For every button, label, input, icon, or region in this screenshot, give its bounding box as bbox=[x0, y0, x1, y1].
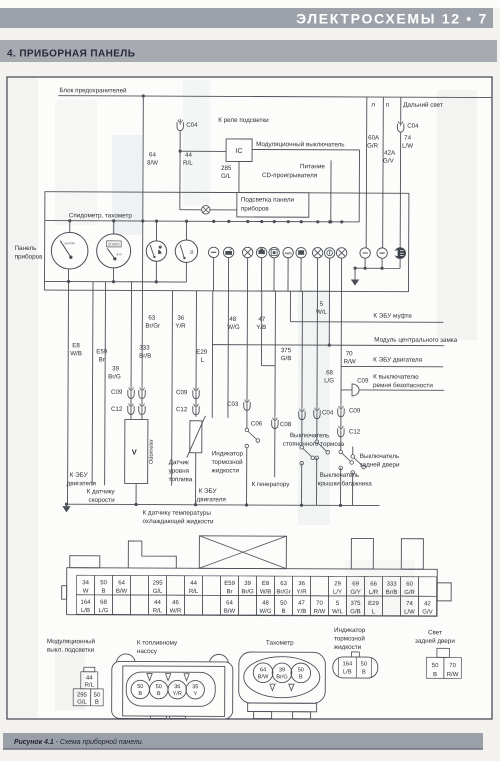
svg-text:44: 44 bbox=[190, 581, 197, 587]
indicator lamp L11 bbox=[360, 248, 370, 258]
svg-text:66: 66 bbox=[370, 581, 377, 587]
svg-text:29: 29 bbox=[334, 581, 341, 587]
indicator lamp L6 bbox=[283, 247, 293, 257]
wire 375 G/B generator branch bbox=[274, 291, 277, 416]
svg-text:R/W: R/W bbox=[447, 672, 459, 678]
svg-text:48: 48 bbox=[229, 316, 236, 323]
svg-text:C09: C09 bbox=[349, 407, 361, 414]
svg-text:44: 44 bbox=[154, 600, 161, 606]
svg-text:К датчику: К датчику bbox=[87, 488, 116, 495]
gauge ground bus bbox=[45, 280, 187, 283]
svg-text:Y/R: Y/R bbox=[173, 691, 182, 697]
connector C12 fuel bbox=[193, 406, 199, 415]
svg-text:G/V: G/V bbox=[422, 610, 432, 616]
pin 375 G/B bbox=[346, 596, 364, 616]
svg-text:164: 164 bbox=[80, 600, 91, 606]
svg-text:C03: C03 bbox=[227, 401, 239, 408]
wire to illumination lamp bbox=[180, 209, 202, 211]
wire lamp stub bbox=[340, 258, 342, 291]
brake fluid connector bbox=[351, 652, 359, 657]
svg-text:50: 50 bbox=[432, 663, 439, 669]
svg-text:333: 333 bbox=[139, 345, 150, 352]
svg-text:L/W: L/W bbox=[402, 143, 413, 150]
svg-text:G/V: G/V bbox=[383, 158, 395, 165]
svg-text:48: 48 bbox=[262, 601, 269, 607]
svg-text:К выключателю: К выключателю bbox=[373, 374, 419, 381]
svg-text:36: 36 bbox=[174, 684, 180, 690]
wire parking brake C08 bbox=[301, 291, 304, 407]
svg-text:L: L bbox=[201, 357, 205, 364]
svg-text:приборов: приборов bbox=[241, 204, 270, 212]
connector C04 lower bbox=[314, 410, 320, 419]
tachometer pin 50 B bbox=[291, 663, 311, 683]
svg-text:74: 74 bbox=[406, 601, 413, 607]
svg-text:К топливному: К топливному bbox=[137, 640, 178, 647]
indicator lamp L12 bbox=[377, 248, 387, 258]
svg-text:50: 50 bbox=[298, 667, 304, 673]
fuel pump pin 50 B bbox=[131, 680, 149, 698]
svg-text:Модуляционный выключатель: Модуляционный выключатель bbox=[256, 140, 345, 148]
connector C08 bbox=[299, 411, 305, 420]
wire stub gauge4 bbox=[185, 221, 187, 240]
svg-text:46: 46 bbox=[172, 600, 179, 606]
svg-text:70: 70 bbox=[316, 601, 323, 607]
tachometer connector housing bbox=[239, 652, 326, 703]
svg-text:00000: 00000 bbox=[108, 242, 120, 247]
svg-text:C09: C09 bbox=[111, 389, 123, 396]
node fuse junction bbox=[142, 94, 145, 97]
svg-text:Br/G: Br/G bbox=[108, 373, 121, 380]
op-amp IC modulation unit U1 bbox=[226, 139, 252, 162]
pin 66 L/R bbox=[365, 577, 383, 597]
svg-text:375: 375 bbox=[281, 347, 292, 354]
svg-text:жидкости: жидкости bbox=[334, 644, 362, 651]
wire lamp stub bbox=[227, 258, 229, 291]
instrument panel enclosure bbox=[44, 192, 408, 292]
svg-text:двигателя: двигателя bbox=[67, 480, 96, 487]
figure caption bar bbox=[3, 733, 483, 750]
tab 4 bbox=[401, 539, 423, 570]
svg-text:Br/Gr: Br/Gr bbox=[276, 589, 290, 595]
indicator lamp L4 bbox=[256, 247, 266, 257]
svg-text:4. ПРИБОРНАЯ ПАНЕЛЬ: 4. ПРИБОРНАЯ ПАНЕЛЬ bbox=[7, 49, 135, 60]
svg-text:Br: Br bbox=[99, 356, 105, 363]
svg-text:G/L: G/L bbox=[221, 173, 232, 180]
svg-text:64: 64 bbox=[226, 600, 233, 606]
svg-text:G/L: G/L bbox=[153, 589, 163, 595]
svg-text:W/B: W/B bbox=[70, 350, 82, 357]
pin 70 R/W bbox=[310, 596, 328, 616]
right latch square bbox=[437, 583, 451, 601]
wire lamp stub bbox=[287, 258, 289, 291]
svg-text:К ЭБУ муфте: К ЭБУ муфте bbox=[373, 313, 412, 320]
pin 47 Y/B bbox=[292, 596, 310, 616]
wire stub tachometer bbox=[113, 221, 115, 234]
tachometer connector skirt bbox=[248, 703, 317, 712]
svg-text:36: 36 bbox=[298, 581, 305, 587]
keying box crossed bbox=[199, 536, 286, 569]
svg-text:42A: 42A bbox=[384, 150, 396, 157]
svg-text:Br/B: Br/B bbox=[139, 353, 151, 360]
pin 39 Br/G bbox=[239, 576, 257, 596]
svg-text:приборов: приборов bbox=[15, 252, 44, 260]
svg-text:C09: C09 bbox=[176, 389, 188, 396]
svg-text:G/B: G/B bbox=[350, 609, 360, 615]
svg-text:AWD: AWD bbox=[285, 251, 293, 255]
svg-text:70: 70 bbox=[449, 663, 456, 669]
wire brake fluid C03 feed bbox=[227, 291, 230, 418]
svg-text:C06: C06 bbox=[251, 421, 263, 428]
svg-text:охлаждающей жидкости: охлаждающей жидкости bbox=[142, 517, 214, 525]
switch trunk lid bbox=[339, 450, 343, 454]
indicator lamp L8 bbox=[312, 248, 322, 258]
tab 1 bbox=[70, 556, 100, 568]
instrument connector block body bbox=[67, 568, 438, 617]
indicator lamp L2 bbox=[223, 247, 233, 257]
svg-text:50: 50 bbox=[94, 693, 101, 699]
indicator lamp L7 bbox=[296, 247, 306, 257]
svg-text:Y: Y bbox=[193, 691, 197, 697]
ground bus bottom bbox=[67, 504, 380, 505]
wire fuel sender to bus bbox=[195, 453, 197, 505]
svg-text:E59: E59 bbox=[224, 581, 235, 587]
svg-text:Блок предохранителей: Блок предохранителей bbox=[59, 86, 127, 94]
svg-text:295: 295 bbox=[77, 692, 88, 698]
wire 63 Br/Gr odometer bbox=[141, 221, 144, 386]
svg-text:скорости: скорости bbox=[89, 497, 116, 504]
pin 164 L/B bbox=[76, 595, 94, 615]
svg-text:К реле подсветки: К реле подсветки bbox=[218, 117, 269, 124]
svg-text:68: 68 bbox=[100, 600, 107, 606]
fuel level sender resistor bbox=[190, 421, 202, 453]
connector C06 bbox=[272, 420, 278, 429]
svg-text:164: 164 bbox=[342, 661, 352, 667]
svg-text:L/B: L/B bbox=[343, 669, 352, 675]
indicator lamp L10 bbox=[336, 248, 346, 258]
wire 70 R/W engine ECU bbox=[340, 291, 342, 404]
wire 44 R/L bbox=[179, 131, 181, 151]
svg-text:топлива: топлива bbox=[169, 476, 193, 483]
fuse box bus wire bbox=[58, 96, 492, 98]
svg-text:стояночного тормоза: стояночного тормоза bbox=[283, 441, 345, 448]
node 44RL junction bbox=[178, 150, 181, 153]
svg-text:Br/B: Br/B bbox=[386, 590, 398, 596]
svg-text:L/G: L/G bbox=[99, 608, 109, 614]
switch brake fluid bbox=[245, 428, 249, 432]
pin 50 B bbox=[95, 575, 113, 595]
svg-text:Br: Br bbox=[227, 589, 233, 595]
pin 34 W bbox=[77, 575, 95, 595]
svg-text:44: 44 bbox=[185, 152, 192, 159]
pin 333 Br/B bbox=[383, 577, 401, 597]
svg-text:E8: E8 bbox=[72, 342, 80, 349]
svg-text:63: 63 bbox=[148, 315, 155, 322]
pin 42 G/V bbox=[418, 596, 436, 616]
wire 48 W/G bbox=[211, 291, 214, 418]
svg-text:64: 64 bbox=[118, 580, 125, 586]
svg-text:C08: C08 bbox=[280, 421, 292, 428]
svg-text:42: 42 bbox=[424, 601, 431, 607]
svg-text:насосу: насосу bbox=[137, 648, 158, 655]
svg-text:E29: E29 bbox=[368, 601, 379, 607]
svg-text:39: 39 bbox=[112, 365, 119, 372]
svg-text:64: 64 bbox=[149, 152, 156, 159]
wire C03 branch bbox=[246, 291, 248, 398]
wire lamp stub bbox=[300, 258, 302, 291]
svg-text:74: 74 bbox=[404, 135, 411, 142]
pin 60 G/R bbox=[401, 577, 419, 597]
svg-text:Панель: Панель bbox=[15, 245, 38, 252]
svg-text:Питание: Питание bbox=[300, 163, 325, 170]
svg-text:IC: IC bbox=[236, 148, 243, 155]
svg-text:жидкости: жидкости bbox=[212, 467, 240, 474]
svg-text:Индикатор: Индикатор bbox=[212, 450, 244, 457]
turn lamps ground rail bbox=[364, 258, 366, 268]
connector C12 right bbox=[338, 428, 344, 437]
svg-text:Выключатель: Выключатель bbox=[320, 472, 360, 479]
svg-text:К ЭБУ: К ЭБУ bbox=[199, 488, 218, 495]
svg-text:Индикатор: Индикатор bbox=[334, 627, 366, 634]
wire to seat belt switch bbox=[360, 389, 444, 391]
modulation connector pins bbox=[84, 667, 95, 672]
svg-text:двигателя: двигателя bbox=[197, 496, 226, 503]
svg-text:B: B bbox=[281, 609, 285, 615]
svg-text:C04: C04 bbox=[407, 123, 419, 130]
svg-text:50: 50 bbox=[361, 661, 367, 667]
connector C12 odometer bbox=[128, 406, 134, 415]
section title bar bbox=[0, 40, 497, 62]
tab 2 tall bbox=[128, 541, 176, 568]
svg-text:70: 70 bbox=[346, 350, 353, 357]
svg-text:B: B bbox=[299, 674, 303, 680]
fuel gauge bbox=[175, 240, 197, 262]
wire lamp stub bbox=[260, 258, 262, 291]
wire lamp stub bbox=[316, 258, 318, 291]
connector C09 fuel bbox=[193, 390, 199, 399]
svg-text:B/W: B/W bbox=[116, 589, 128, 595]
svg-text:B/W: B/W bbox=[224, 609, 236, 615]
svg-text:R/L: R/L bbox=[85, 683, 95, 689]
svg-text:Подсветка панели: Подсветка панели bbox=[241, 196, 295, 203]
pin 29 L/Y bbox=[329, 576, 347, 596]
pin 46 W/R bbox=[166, 595, 184, 615]
tab 3 bbox=[351, 538, 373, 569]
wire E59 Br to speed sensor bbox=[91, 290, 94, 485]
svg-text:63: 63 bbox=[280, 581, 287, 587]
svg-text:G/B: G/B bbox=[281, 355, 292, 362]
pin E29 L bbox=[364, 596, 382, 616]
panel illumination box bbox=[237, 193, 309, 218]
svg-text:295: 295 bbox=[153, 581, 164, 587]
svg-text:36: 36 bbox=[177, 315, 184, 322]
svg-text:C04: C04 bbox=[186, 122, 198, 129]
tachometer pin 39 Br/G bbox=[272, 663, 292, 683]
svg-text:К генератору: К генератору bbox=[252, 481, 291, 488]
svg-text:B: B bbox=[157, 691, 161, 697]
switch door bbox=[315, 440, 319, 444]
connector C09 odometer bbox=[128, 390, 134, 399]
svg-text:W/G: W/G bbox=[227, 324, 240, 331]
svg-text:W/L: W/L bbox=[332, 609, 343, 615]
svg-text:Y/R: Y/R bbox=[297, 590, 308, 596]
svg-text:Br/G: Br/G bbox=[276, 674, 288, 680]
svg-text:E59: E59 bbox=[96, 348, 108, 355]
svg-text:CD-проигрывателя: CD-проигрывателя bbox=[262, 172, 317, 179]
svg-text:Свет: Свет bbox=[428, 629, 442, 636]
svg-text:Модуляционный: Модуляционный bbox=[47, 637, 96, 645]
svg-text:8/W: 8/W bbox=[147, 160, 158, 167]
fuel pump connector housing bbox=[116, 654, 135, 673]
indicator lamp L1 bbox=[208, 247, 218, 257]
svg-text:К ЭБУ: К ЭБУ bbox=[70, 472, 89, 479]
wire lamp to illumination box bbox=[210, 209, 237, 211]
wire lamp stub bbox=[273, 258, 275, 291]
wire 64 8/W bbox=[142, 96, 145, 221]
connector C09 right bbox=[338, 408, 344, 417]
svg-text:L/R: L/R bbox=[369, 590, 379, 596]
svg-text:60: 60 bbox=[406, 582, 413, 588]
svg-text:Br/Gr: Br/Gr bbox=[145, 323, 160, 330]
indicator lamp high beam bbox=[395, 248, 406, 259]
svg-text:Модуль центрального замка: Модуль центрального замка bbox=[374, 337, 457, 344]
svg-text:B/W: B/W bbox=[258, 674, 269, 680]
tachometer pin 64 B/W bbox=[253, 663, 273, 683]
svg-text:47: 47 bbox=[298, 601, 305, 607]
wire C04 branch bbox=[316, 291, 319, 406]
svg-text:крышки багажника: крышки багажника bbox=[318, 479, 373, 487]
svg-text:B: B bbox=[433, 672, 437, 678]
wire lamp stub bbox=[212, 258, 214, 291]
wire right beam 42A G/V bbox=[382, 97, 385, 248]
wire left beam 60A G/R bbox=[365, 97, 368, 248]
pin 64 B/W bbox=[113, 575, 131, 595]
svg-text:C04: C04 bbox=[322, 409, 334, 416]
svg-text:Рисунок 4.1 - Схема приборной: Рисунок 4.1 - Схема приборной панели. bbox=[14, 738, 144, 746]
svg-text:R/L: R/L bbox=[183, 160, 193, 167]
svg-text:285: 285 bbox=[221, 165, 232, 172]
wire clutch ECU 5 W/L bbox=[289, 291, 291, 321]
header page bar bbox=[0, 8, 493, 28]
pin 5 W/L bbox=[328, 596, 346, 616]
odometer module bbox=[125, 419, 148, 483]
svg-text:39: 39 bbox=[244, 581, 251, 587]
pin 69 G/Y bbox=[347, 576, 365, 596]
svg-text:5: 5 bbox=[320, 301, 324, 308]
svg-text:V: V bbox=[132, 447, 137, 456]
svg-text:Выключатель: Выключатель bbox=[360, 453, 400, 460]
svg-text:G/R: G/R bbox=[367, 143, 379, 150]
svg-text:задней двери: задней двери bbox=[360, 460, 400, 468]
wire 285 G/L bbox=[238, 161, 240, 192]
svg-text:Odometer: Odometer bbox=[149, 439, 155, 464]
tachometer gauge with odometer window bbox=[97, 234, 131, 268]
rear door light connector bbox=[437, 648, 450, 657]
wire E29 L fuel sender bbox=[195, 291, 197, 389]
panel supply bus bbox=[45, 221, 359, 222]
wire central lock module bbox=[328, 291, 330, 345]
svg-text:R/W: R/W bbox=[314, 609, 326, 615]
svg-text:ЭЛЕКТРОСХЕМЫ 12 • 7: ЭЛЕКТРОСХЕМЫ 12 • 7 bbox=[296, 10, 488, 26]
svg-text:35: 35 bbox=[192, 684, 198, 690]
svg-text:375: 375 bbox=[350, 601, 361, 607]
svg-text:Дальний свет: Дальний свет bbox=[403, 101, 443, 109]
svg-text:G/L: G/L bbox=[77, 700, 87, 706]
speedometer gauge bbox=[51, 232, 88, 269]
svg-text:G/Y: G/Y bbox=[350, 590, 360, 596]
svg-text:L/Y: L/Y bbox=[333, 590, 342, 596]
fuel pump pin 36 Y/R bbox=[168, 680, 186, 698]
svg-text:50: 50 bbox=[100, 580, 107, 586]
svg-text:R/L: R/L bbox=[189, 589, 199, 595]
fuel pump pin 35 Y bbox=[186, 681, 204, 699]
svg-text:L/B: L/B bbox=[81, 608, 90, 614]
wire stub gauge3 bbox=[155, 221, 157, 241]
svg-text:выкл. подсветки: выкл. подсветки bbox=[47, 647, 95, 654]
fuel pump connector latch bbox=[151, 716, 167, 718]
svg-text:C09: C09 bbox=[357, 377, 369, 384]
illumination lamp bbox=[202, 206, 210, 214]
svg-text:задней двери: задней двери bbox=[415, 637, 455, 645]
seat belt switch connector C09 bbox=[341, 389, 352, 391]
pin 44 R/L bbox=[185, 576, 203, 596]
svg-text:C12: C12 bbox=[111, 406, 123, 413]
pin 50 B bbox=[274, 596, 292, 616]
connector C04 to backlight relay bbox=[177, 122, 183, 131]
svg-text:44: 44 bbox=[86, 675, 93, 681]
svg-text:C12: C12 bbox=[176, 406, 188, 413]
svg-text:Y/R: Y/R bbox=[175, 323, 186, 330]
svg-text:G/R: G/R bbox=[404, 590, 415, 596]
pin 74 L/W bbox=[400, 596, 418, 616]
switch parking brake bbox=[300, 445, 304, 449]
connector C03 bbox=[244, 402, 250, 411]
indicator lamp L5 bbox=[269, 247, 279, 257]
indicator lamp L3 bbox=[242, 247, 252, 257]
svg-text:E29: E29 bbox=[196, 349, 208, 356]
svg-text:R/L: R/L bbox=[153, 608, 163, 614]
svg-text:50: 50 bbox=[156, 684, 162, 690]
wire 47 Y/B bend bbox=[260, 291, 262, 366]
indicator lamp L9 bbox=[324, 248, 334, 258]
svg-text:50: 50 bbox=[137, 684, 143, 690]
wire E8 W/B to engine ECU bbox=[67, 290, 70, 504]
pin 64 B/W bbox=[220, 595, 238, 615]
wire lamp stub bbox=[328, 258, 330, 291]
pin 295 G/L bbox=[149, 576, 167, 596]
pin 68 L/G bbox=[94, 595, 112, 615]
svg-text:тормозной: тормозной bbox=[334, 634, 365, 642]
svg-text:th/h: th/h bbox=[117, 252, 122, 256]
svg-text:W/R: W/R bbox=[170, 608, 182, 614]
svg-text:Датчик: Датчик bbox=[169, 459, 189, 466]
svg-text:Y/B: Y/B bbox=[297, 609, 307, 615]
svg-text:L/G: L/G bbox=[324, 377, 334, 384]
svg-text:ремня безопасности: ремня безопасности bbox=[373, 381, 433, 389]
svg-text:W: W bbox=[83, 589, 89, 595]
svg-text:Выключатель: Выключатель bbox=[290, 432, 330, 439]
pin E8 W/B bbox=[257, 576, 275, 596]
svg-text:п: п bbox=[386, 102, 390, 109]
svg-text:Br/G: Br/G bbox=[241, 589, 254, 595]
svg-text:B: B bbox=[362, 669, 366, 675]
svg-text:B: B bbox=[95, 700, 99, 706]
wire 36 Y/R bbox=[171, 291, 174, 486]
svg-text:Тахометр: Тахометр bbox=[266, 640, 294, 647]
svg-text:Спидометр, тахометр: Спидометр, тахометр bbox=[69, 212, 133, 219]
svg-text:B: B bbox=[102, 589, 106, 595]
svg-text:60A: 60A bbox=[368, 135, 380, 142]
svg-text:E8: E8 bbox=[262, 581, 270, 587]
